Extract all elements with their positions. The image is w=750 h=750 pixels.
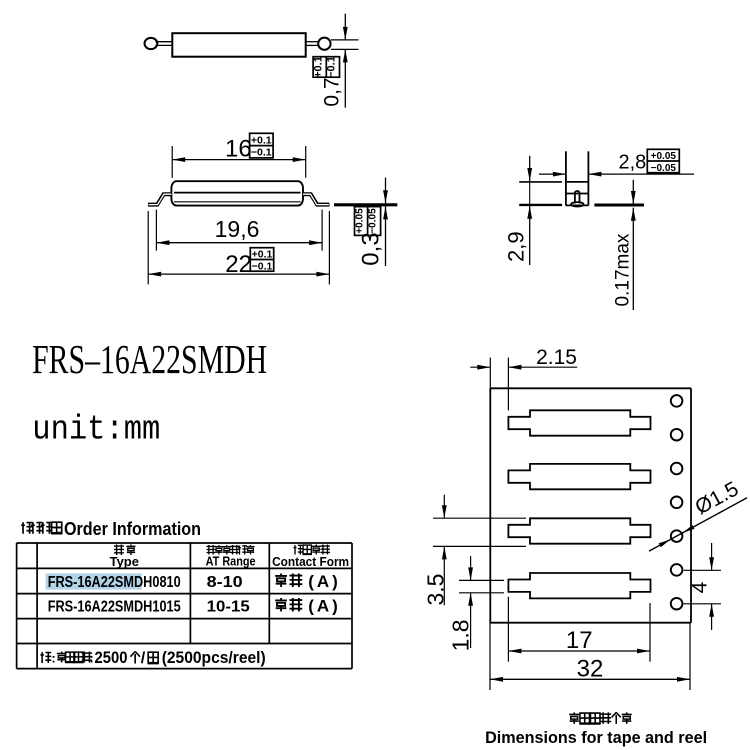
svg-text:+0.1: +0.1 — [251, 134, 272, 146]
dim 3.5 extension lines — [433, 517, 526, 519]
svg-text:16: 16 — [225, 135, 252, 162]
dim 1.8 extension lines — [459, 579, 504, 581]
svg-text:AT Range: AT Range — [206, 554, 256, 569]
svg-text:(A): (A) — [308, 596, 341, 615]
svg-text::: : — [57, 521, 62, 537]
dim 22 extension lines — [147, 211, 149, 284]
svg-text:17: 17 — [566, 627, 593, 654]
note row 注: 卷盘包装: 2500个/盒 (2500pcs/reel) — [40, 652, 51, 663]
svg-text:19,6: 19,6 — [215, 216, 260, 242]
dim 0.17max dimension line with arrows — [632, 180, 634, 204]
dim 2.15 dimension line with arrows — [470, 366, 490, 368]
row1 contact form 常开（A） — [275, 574, 287, 588]
svg-text::: : — [89, 651, 93, 666]
dim 32 extension lines — [489, 623, 491, 690]
svg-text:2500: 2500 — [95, 649, 128, 667]
end view lead foot tab — [575, 191, 580, 204]
tape pocket 2 — [508, 464, 650, 489]
axial lead right wire — [306, 41, 320, 43]
header cell 干簧管灵敏度 / AT Range — [207, 545, 216, 554]
svg-text::: : — [51, 651, 55, 666]
tolerance box +0.05/-0.05 (for 2,8) — [647, 149, 679, 172]
svg-text:Order Information: Order Information — [64, 519, 201, 539]
dim 17 dimension line with arrows — [508, 650, 650, 652]
svg-text:0,7: 0,7 — [321, 77, 344, 106]
svg-text:3.5: 3.5 — [423, 574, 449, 606]
svg-text:2,9: 2,9 — [504, 231, 529, 262]
tape outline — [490, 387, 691, 389]
end view inner line upper — [566, 181, 589, 183]
smd glass body (side view) — [171, 181, 303, 205]
svg-text:4: 4 — [689, 581, 712, 593]
tolerance box +0.05/-0.05 (rotated, for 0.3) — [355, 207, 381, 236]
svg-text:−0.05: −0.05 — [651, 163, 677, 174]
svg-text:0,3: 0,3 — [358, 232, 385, 265]
svg-text:Dimensions for tape and reel: Dimensions for tape and reel — [485, 729, 707, 747]
dim 0.7 extension lines — [331, 39, 359, 41]
table grid vertical lines — [16, 543, 18, 669]
svg-text:FRS–16A22SMDH: FRS–16A22SMDH — [32, 336, 267, 382]
dim 16 extension lines — [171, 146, 173, 178]
svg-text:1.8: 1.8 — [448, 619, 474, 651]
svg-text:−0.1: −0.1 — [326, 56, 338, 78]
smd gull-wing lead right — [303, 194, 329, 204]
svg-text:+0.05: +0.05 — [651, 151, 677, 162]
svg-text:2,8: 2,8 — [618, 151, 646, 173]
dim 32 dimension line with arrows — [490, 678, 690, 680]
svg-text:8-10: 8-10 — [207, 574, 243, 591]
svg-text:(A): (A) — [308, 572, 341, 591]
axial lead right cap — [318, 38, 330, 50]
dim 2,8 dimension line with arrows — [539, 173, 566, 175]
svg-text:2.15: 2.15 — [536, 346, 577, 369]
svg-text:10-15: 10-15 — [207, 599, 250, 616]
svg-text:+0.1: +0.1 — [252, 248, 273, 260]
svg-text:/: / — [141, 650, 146, 667]
svg-text:unit:mm: unit:mm — [32, 412, 160, 450]
dim 2,9 dimension line with arrows — [529, 156, 531, 181]
tape pocket 3 — [508, 518, 650, 543]
dim 16 dimension line — [172, 159, 306, 161]
dim 1.8 dimension line with arrows — [470, 556, 472, 580]
tolerance box +0.1/-0.1 (rotated, for 0.7) — [313, 57, 339, 77]
svg-text:0.17max: 0.17max — [613, 233, 634, 306]
table grid horizontal lines — [17, 542, 352, 544]
heading chinese 订购信息: — [21, 522, 33, 534]
dim 0.3 dimension line with arrows — [385, 178, 387, 204]
dim 19,6 dimension line — [156, 242, 322, 244]
header cell 型号 / Type — [114, 545, 124, 556]
svg-text:22: 22 — [225, 251, 252, 278]
end view inner line lower — [566, 193, 589, 195]
svg-text:−0.05: −0.05 — [368, 208, 379, 234]
dim 0.7 dimension line with arrows — [344, 14, 346, 40]
row2 contact form 常开（A） — [275, 598, 287, 612]
caption chinese 卷盘包装尺寸 — [569, 712, 579, 724]
table row1 highlight (selection) — [46, 573, 142, 589]
sprocket holes — [671, 395, 683, 407]
dim 17 extension lines — [507, 597, 509, 662]
svg-text:FRS-16A22SMDH0810: FRS-16A22SMDH0810 — [48, 574, 181, 591]
svg-text:32: 32 — [577, 656, 604, 683]
svg-text:−0.1: −0.1 — [252, 260, 273, 272]
svg-text:+0.1: +0.1 — [313, 56, 325, 78]
seating plane line (0.17 detail) — [594, 204, 644, 207]
axial lead left cap — [145, 38, 158, 49]
dim 2,9 extension lines — [519, 181, 562, 183]
diameter leader line Ø1.5 — [649, 498, 747, 551]
svg-text:(2500pcs/reel): (2500pcs/reel) — [162, 649, 266, 667]
dim 19,6 extension lines — [155, 210, 157, 251]
svg-text:−0.1: −0.1 — [251, 147, 272, 159]
dim 4 extension lines — [684, 569, 722, 571]
dim 3.5 dimension line with arrows — [443, 495, 445, 519]
end view body sides — [565, 151, 567, 205]
tape pocket 1 — [508, 410, 650, 435]
seating plane line (0.3 detail) — [334, 203, 397, 206]
tolerance box +0.1/-0.1 (for 16) — [250, 133, 274, 158]
svg-text:FRS-16A22SMDH1015: FRS-16A22SMDH1015 — [48, 599, 181, 616]
svg-text:+0.05: +0.05 — [355, 208, 366, 234]
dim 2.15 extension lines — [489, 358, 491, 389]
axial reed switch glass body — [172, 33, 305, 57]
tolerance box +0.1/-0.1 (for 22) — [250, 248, 273, 272]
header cell 触点方式 / Contact Form — [294, 545, 303, 554]
svg-text:Type: Type — [110, 554, 139, 569]
svg-text:Contact Form: Contact Form — [272, 554, 349, 569]
end view bottom edge — [566, 204, 589, 206]
smd body inner reflection lines — [174, 192, 301, 194]
axial lead left wire — [156, 41, 173, 43]
tape pocket 4 — [508, 573, 650, 598]
dim 22 dimension line — [148, 273, 329, 275]
dim 4 dimension line with arrows — [711, 543, 713, 570]
smd gull-wing lead left — [148, 194, 171, 204]
